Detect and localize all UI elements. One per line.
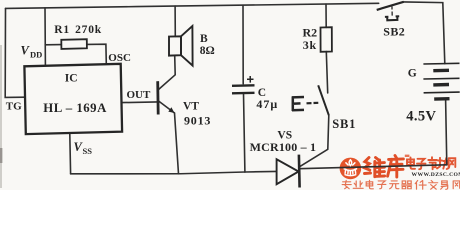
svg-text:47μ: 47μ xyxy=(256,97,278,111)
svg-text:4.5V: 4.5V xyxy=(406,108,436,124)
svg-text:G: G xyxy=(408,68,417,80)
svg-text:B: B xyxy=(200,33,208,45)
svg-text:SB1: SB1 xyxy=(332,117,356,131)
svg-text:R1 270k: R1 270k xyxy=(54,24,102,36)
svg-text:9013: 9013 xyxy=(184,113,211,127)
svg-text:DD: DD xyxy=(30,50,42,60)
svg-text:SS: SS xyxy=(83,146,93,156)
svg-text:TG: TG xyxy=(6,101,22,113)
svg-text:SB2: SB2 xyxy=(383,25,405,39)
svg-text:OUT: OUT xyxy=(127,89,152,101)
svg-text:IC: IC xyxy=(65,73,78,85)
svg-text:VT: VT xyxy=(183,101,199,113)
svg-text:8Ω: 8Ω xyxy=(200,45,215,57)
svg-text:HL – 169A: HL – 169A xyxy=(43,101,107,115)
svg-text:3k: 3k xyxy=(303,38,317,52)
svg-text:WWW.DZSC.COM: WWW.DZSC.COM xyxy=(412,172,460,178)
svg-text:OSC: OSC xyxy=(108,52,131,64)
svg-text:MCR100 – 1: MCR100 – 1 xyxy=(250,140,317,154)
